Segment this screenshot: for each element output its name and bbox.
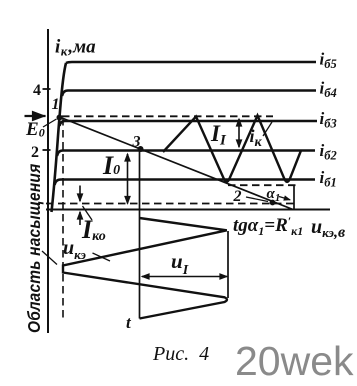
curve iб1 — [55, 180, 316, 186]
point 3 projection / time axis — [139, 149, 141, 319]
uI dimension arrow — [142, 276, 227, 278]
vertical line at load line end — [293, 186, 295, 210]
svg-text:iб3: iб3 — [320, 109, 337, 131]
svg-text:iб4: iб4 — [320, 79, 337, 101]
point 2 — [270, 200, 276, 206]
uкэ label pointer — [93, 253, 111, 261]
svg-text:E0: E0 — [25, 119, 45, 140]
I_I dimension arrow — [238, 119, 240, 147]
Iко pointer — [83, 206, 93, 220]
curve iб5 — [66, 62, 316, 63]
tick 2 — [43, 149, 51, 151]
I0 dimension arrow — [127, 154, 129, 204]
uI extension line (max u) — [227, 231, 229, 298]
svg-text:2: 2 — [233, 188, 242, 205]
Iко dimension arrow lower — [79, 212, 81, 225]
uкэ(t) waveform — [63, 218, 227, 319]
y-axis iк — [47, 29, 49, 333]
x-axis uкэ — [46, 209, 330, 211]
область pointer — [42, 251, 57, 265]
E0 pointer — [43, 119, 57, 127]
svg-text:iб2: iб2 — [320, 141, 337, 163]
point 1 — [57, 115, 63, 121]
vertical text Область насыщения — [24, 164, 44, 333]
tick 4 — [43, 88, 51, 90]
svg-text:Iко: Iко — [81, 215, 106, 244]
ik label pointer — [263, 122, 272, 136]
point 2 pointer — [246, 197, 268, 202]
svg-text:II: II — [210, 121, 227, 149]
svg-text:α1: α1 — [267, 186, 281, 204]
load line 1-3-2 — [60, 117, 294, 210]
Iко dimension arrow upper — [79, 186, 81, 202]
svg-text:iб1: iб1 — [320, 168, 337, 190]
svg-text:Рис. 4: Рис. 4 — [152, 343, 209, 365]
svg-text:4: 4 — [33, 82, 41, 99]
saturation envelope (steep rise) — [52, 63, 67, 212]
curve iб3 — [60, 121, 318, 126]
point 3 — [138, 146, 144, 152]
svg-text:iб5: iб5 — [320, 50, 337, 72]
svg-text:Область насыщения: Область насыщения — [24, 164, 44, 333]
svg-text:2: 2 — [31, 144, 39, 161]
svg-text:iк,ма: iк,ма — [55, 37, 96, 59]
E0 arrow — [25, 115, 46, 117]
curve iб2 — [57, 151, 315, 157]
curve iб4 — [62, 91, 316, 97]
svg-text:I0: I0 — [102, 151, 120, 180]
svg-text:tgα1=R′к1: tgα1=R′к1 — [233, 214, 303, 238]
dashed line at peak level from point 1 — [62, 115, 273, 117]
svg-text:uкэ,в: uкэ,в — [311, 216, 345, 241]
svg-text:20wek: 20wek — [235, 338, 354, 384]
dashed vertical saturation boundary — [62, 118, 64, 322]
svg-text:t: t — [126, 313, 132, 332]
svg-text:1: 1 — [52, 96, 60, 113]
dashed line at ik minimum (valleys) — [228, 184, 300, 186]
α1 arrow — [279, 197, 290, 200]
ik zigzag waveform — [163, 116, 301, 182]
svg-text:uI: uI — [171, 249, 189, 278]
svg-text:3: 3 — [132, 134, 141, 151]
dashed line Iко level — [46, 203, 294, 205]
svg-text:iк: iк — [250, 126, 263, 150]
